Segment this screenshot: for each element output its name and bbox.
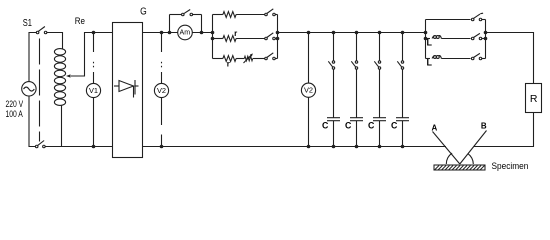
switch L row3 xyxy=(471,57,474,60)
svg-text:L: L xyxy=(427,58,433,68)
thyristor inside G xyxy=(114,80,139,98)
AC source xyxy=(22,82,36,96)
svg-text:220 V: 220 V xyxy=(6,99,24,109)
wire L block to R xyxy=(486,33,534,84)
switch bypass xyxy=(182,13,185,16)
svg-text:r: r xyxy=(234,29,237,38)
wire V2b branch xyxy=(308,33,310,84)
svg-text:100 A: 100 A xyxy=(6,109,23,119)
variable resistor xyxy=(244,56,252,60)
wire cap4 lower xyxy=(402,121,404,147)
wire source top lead xyxy=(29,33,36,82)
S1 mechanical link (dashed) xyxy=(39,39,41,142)
transformer Re coil xyxy=(54,49,65,106)
wire V1 bottom xyxy=(93,98,95,147)
wire V2b bottom xyxy=(308,97,310,147)
wire cap2 upper xyxy=(356,33,358,61)
capacitor C4 xyxy=(396,117,409,119)
inductor block right bus xyxy=(485,20,487,59)
capacitor branch 1 xyxy=(322,31,340,149)
wire cap3 lower xyxy=(379,121,381,147)
capacitor branch 2 xyxy=(345,31,363,149)
resistor row3 (r + variable) xyxy=(213,58,223,60)
node bypass right xyxy=(200,31,204,35)
L row2 inductor xyxy=(426,38,431,40)
electrode A xyxy=(433,132,460,165)
node cap4 top xyxy=(401,31,405,35)
wire coil bottom lead xyxy=(61,105,63,146)
svg-text:S1: S1 xyxy=(23,18,33,29)
angle arc B xyxy=(468,154,473,164)
L row3 inductor xyxy=(426,58,431,60)
svg-text:L: L xyxy=(427,38,433,48)
ammeter bypass right riser xyxy=(201,15,203,33)
ammeter bypass left riser xyxy=(169,15,171,33)
switch L row1 xyxy=(471,18,474,21)
svg-text:C: C xyxy=(368,120,375,130)
switch L row2 xyxy=(471,37,474,40)
wire cap4 middle xyxy=(402,69,404,117)
wire V2a branch (dash-dot) xyxy=(161,33,163,53)
switch row3 xyxy=(265,57,268,60)
wire cap1 upper xyxy=(333,33,335,61)
svg-text:G: G xyxy=(140,6,147,17)
AC source sine xyxy=(24,87,35,91)
svg-text:C: C xyxy=(322,120,329,130)
wire tap to main line xyxy=(71,33,113,77)
node cap2 bottom xyxy=(355,145,359,149)
node cap4 bottom xyxy=(401,145,405,149)
wire R to bottom xyxy=(474,113,534,147)
wire cap1 middle xyxy=(333,69,335,117)
node V1 bottom junction xyxy=(92,145,96,149)
wire cap3 upper xyxy=(379,33,381,61)
svg-text:V2: V2 xyxy=(157,86,166,95)
voltmeter V2 second xyxy=(301,83,315,97)
capacitor C3 xyxy=(373,117,386,119)
svg-text:V2: V2 xyxy=(304,86,313,95)
wire cap1 lower xyxy=(333,121,335,147)
wire cap4 upper xyxy=(402,33,404,61)
L row1 (bypass wire) xyxy=(426,19,471,21)
transformer tap arrow xyxy=(66,74,71,77)
node cap2 top xyxy=(355,31,359,35)
electrode B xyxy=(460,131,487,165)
svg-text:B: B xyxy=(481,122,487,131)
capacitor C2 xyxy=(350,117,363,119)
resistor box R xyxy=(526,84,542,113)
wire Am to bus xyxy=(192,32,212,34)
node V1 top junction xyxy=(92,31,96,35)
switch row1 xyxy=(265,13,268,16)
switch cap3 xyxy=(378,61,380,63)
svg-text:Am: Am xyxy=(180,30,191,37)
node V2a bottom junction xyxy=(160,145,164,149)
svg-text:Specimen: Specimen xyxy=(492,161,529,172)
wire V1 branch (dash-dot) xyxy=(93,33,95,53)
switch cap2 xyxy=(355,61,357,63)
switch cap4 xyxy=(401,61,403,63)
wire S1 top to transformer xyxy=(47,33,63,50)
capacitor branch 3 xyxy=(368,31,386,149)
switch row2 xyxy=(265,37,268,40)
inductor block left bus xyxy=(425,20,427,59)
specimen bar xyxy=(434,165,485,170)
switch S1 bottom pole xyxy=(35,145,38,148)
node cap3 bottom xyxy=(378,145,382,149)
resistor bank right bus xyxy=(277,15,279,59)
wire cap3 middle xyxy=(379,69,381,117)
wire bypass top xyxy=(170,14,182,16)
wire cap2 lower xyxy=(356,121,358,147)
wire S1 bottom line xyxy=(45,146,112,148)
capacitor C1 xyxy=(327,117,340,119)
svg-text:C: C xyxy=(391,120,398,130)
angle arc A xyxy=(446,153,452,164)
wire cap2 middle xyxy=(356,69,358,117)
resistor row2 (r) xyxy=(213,38,223,40)
svg-text:V1: V1 xyxy=(89,86,98,95)
wire bottom line G to specimen xyxy=(143,146,447,148)
capacitor branch 4 xyxy=(391,31,409,149)
node bypass left xyxy=(168,31,172,35)
voltmeter V2 first xyxy=(154,83,168,97)
ammeter Am xyxy=(178,25,193,40)
svg-text:r: r xyxy=(227,60,230,69)
svg-text:C: C xyxy=(345,120,352,130)
rectifier box G xyxy=(113,23,143,158)
resistor bank left bus xyxy=(212,15,214,59)
node V2a top junction xyxy=(160,31,164,35)
node cap3 top xyxy=(378,31,382,35)
wire source bottom lead xyxy=(29,96,35,147)
svg-text:A: A xyxy=(432,124,438,133)
switch S1 top pole xyxy=(36,31,39,34)
wire V2a bottom xyxy=(161,98,163,126)
resistor row1 xyxy=(213,14,223,16)
wire main line G to Am xyxy=(143,32,178,34)
switch cap1 xyxy=(332,61,334,63)
svg-text:Re: Re xyxy=(75,16,85,27)
node V2b bottom xyxy=(307,145,311,149)
voltmeter V1 xyxy=(86,83,100,97)
node V2b junction xyxy=(307,31,311,35)
svg-text:R: R xyxy=(530,93,538,105)
node cap1 bottom xyxy=(332,145,336,149)
wire main line bus to L block xyxy=(278,32,426,34)
node cap1 top xyxy=(332,31,336,35)
